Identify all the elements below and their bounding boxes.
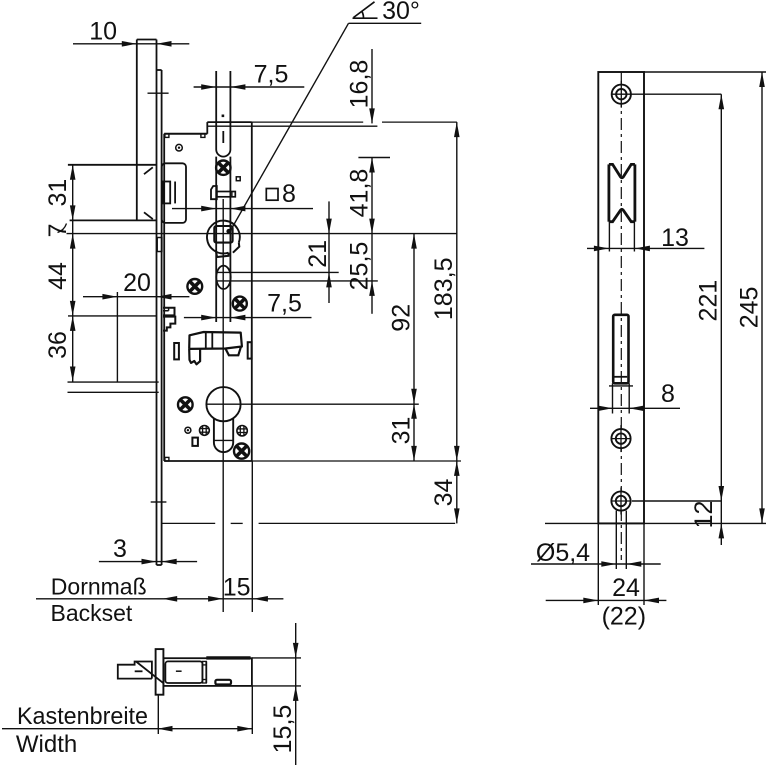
svg-text:21: 21	[304, 240, 332, 268]
dimension 20	[83, 269, 189, 382]
screw hole	[611, 425, 631, 452]
mounting plate flat bar	[137, 40, 157, 221]
dimension 183,5	[430, 122, 459, 461]
bottom view latch	[118, 662, 164, 684]
vertical centre axis	[222, 199, 224, 612]
cam oval	[216, 266, 230, 289]
dimension 25,5	[346, 234, 375, 314]
striking plate outline	[598, 72, 644, 560]
dimension 15,5	[252, 623, 301, 765]
slot rect right	[248, 342, 252, 358]
dimension 34	[430, 461, 459, 524]
svg-text:7: 7	[44, 223, 72, 237]
dimension 7,5 top	[194, 61, 305, 90]
dimension 3	[99, 535, 197, 564]
svg-text:34: 34	[430, 479, 458, 507]
deadbolt	[189, 332, 242, 364]
extension line 21	[216, 271, 338, 273]
lock case outline	[164, 122, 461, 461]
dimension 13	[587, 224, 704, 252]
dimension 221	[695, 94, 725, 501]
faceplate stair tabs	[163, 308, 175, 331]
svg-text:41,8: 41,8	[346, 169, 374, 218]
hole lower extension	[632, 500, 721, 502]
svg-text:20: 20	[123, 269, 151, 297]
svg-text:Ø5,4: Ø5,4	[536, 539, 590, 567]
dimension line follower slot	[172, 206, 313, 212]
svg-text:15: 15	[223, 574, 251, 602]
small rect hole	[192, 438, 198, 446]
screw S2	[187, 279, 202, 294]
follower nut	[207, 221, 240, 257]
svg-text:44: 44	[44, 262, 72, 290]
screw S3	[233, 297, 247, 311]
svg-text:245: 245	[735, 287, 763, 329]
grid screw G1	[200, 426, 210, 436]
grid screw G2	[237, 426, 247, 436]
dimension 24 and 22	[546, 523, 667, 630]
left dimension column 31 7 44 36	[44, 165, 157, 382]
dimension 8	[590, 380, 680, 411]
screw S4	[178, 397, 193, 412]
svg-text:7,5: 7,5	[267, 290, 302, 318]
dimension 12	[545, 501, 766, 545]
latch opening V	[609, 164, 635, 251]
svg-text:15,5: 15,5	[269, 705, 297, 754]
latch bolt head	[68, 165, 157, 221]
svg-text:Dornmaß: Dornmaß	[51, 574, 147, 600]
svg-text:31: 31	[44, 179, 72, 207]
screw hole	[611, 488, 631, 515]
svg-text:13: 13	[661, 224, 689, 252]
svg-text:24: 24	[612, 574, 640, 602]
latch guide slot	[216, 71, 230, 322]
svg-text:183,5: 183,5	[430, 258, 458, 321]
dimension 10	[73, 18, 189, 47]
screw S1	[216, 161, 230, 175]
svg-text:3: 3	[113, 535, 127, 563]
dimension 92	[388, 234, 417, 404]
faceplate slot small	[157, 238, 162, 252]
screw hole	[611, 81, 631, 108]
svg-text:Backset: Backset	[51, 600, 133, 626]
latch bolt behind faceplate	[162, 163, 186, 223]
svg-text:12: 12	[690, 501, 718, 529]
spindle pin	[211, 186, 235, 199]
square 8 label	[266, 180, 296, 208]
dimension 16,8	[346, 49, 391, 158]
svg-text:30°: 30°	[382, 0, 420, 25]
faceplate strip edge-on	[148, 70, 169, 565]
svg-text:31: 31	[388, 417, 416, 445]
kastenbreite width label and dimension	[2, 686, 252, 758]
svg-text:Kastenbreite: Kastenbreite	[17, 703, 148, 730]
follower centre line	[67, 233, 457, 235]
hole small top	[176, 144, 183, 151]
svg-text:(22): (22)	[602, 603, 646, 631]
svg-text:16,8: 16,8	[346, 60, 374, 109]
hole top extension	[632, 93, 722, 95]
dash dot axis bottom	[161, 522, 455, 524]
svg-text:8: 8	[282, 180, 296, 208]
slot rect left	[174, 343, 179, 359]
hole small	[185, 427, 191, 433]
svg-text:7,5: 7,5	[254, 61, 289, 89]
screw S5	[234, 444, 249, 459]
svg-text:10: 10	[89, 18, 117, 46]
svg-text:92: 92	[388, 304, 416, 332]
svg-text:Width: Width	[16, 731, 77, 758]
dimension 31 right	[388, 404, 417, 461]
bottom view case	[163, 658, 252, 686]
dimension 21	[304, 201, 332, 303]
svg-text:8: 8	[661, 380, 675, 408]
line 36 bottom pair	[68, 382, 159, 392]
svg-text:25,5: 25,5	[346, 242, 374, 291]
euro cylinder	[206, 387, 418, 452]
dimension 245	[644, 72, 766, 523]
svg-text:36: 36	[44, 331, 72, 359]
angle symbol and 30 text	[353, 0, 420, 25]
dornmass backset label and dimension 15	[36, 574, 283, 627]
bottom view faceplate	[156, 649, 164, 695]
angle 30 leader	[226, 23, 421, 233]
dimension diameter 5,4	[531, 511, 661, 569]
case verticals extended	[251, 461, 253, 612]
tiny square hole	[236, 177, 240, 181]
dimension 7,5 lower	[184, 290, 312, 321]
dimension 41,8	[346, 158, 375, 234]
svg-text:221: 221	[695, 280, 723, 322]
deadbolt opening	[609, 315, 633, 414]
extension line 25,5	[216, 280, 377, 282]
